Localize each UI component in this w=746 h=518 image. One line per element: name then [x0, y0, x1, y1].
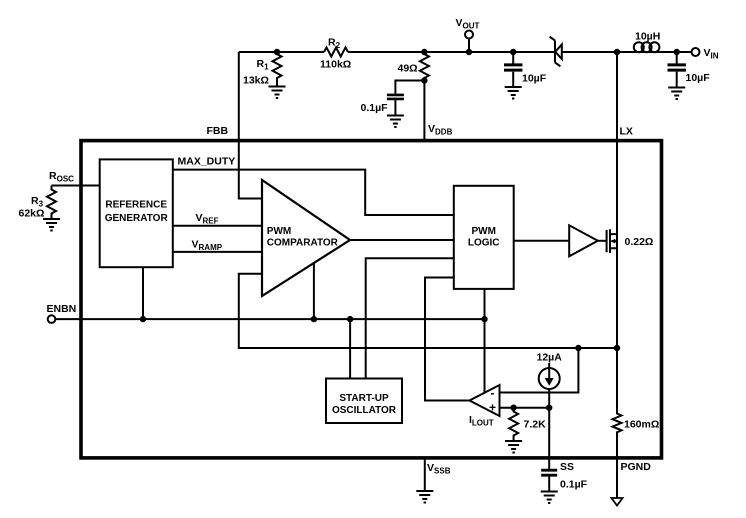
- main IC block border: [81, 141, 662, 458]
- capacitor 10µF (output) stem: [512, 52, 514, 64]
- terminal ENBN: [48, 315, 56, 323]
- junction dot VDDB node: [421, 77, 427, 83]
- resistor 49Ω: [420, 52, 429, 81]
- wire startup right to pwm logic: [366, 258, 454, 378]
- svg-text:+: +: [489, 400, 496, 414]
- junction dot VOUT: [466, 49, 472, 55]
- svg-text:160mΩ: 160mΩ: [624, 419, 659, 431]
- current source I1: [539, 368, 560, 389]
- junction dot LX top: [614, 49, 620, 55]
- wire top rail left segment FBB to R2: [239, 51, 324, 53]
- ground under SS cap: [541, 492, 558, 500]
- junction dot bus comparator: [311, 316, 317, 322]
- svg-text:0.1µF: 0.1µF: [560, 479, 588, 491]
- op-amp PWM comparator: [262, 180, 350, 296]
- capacitor 10µF input lower stem: [676, 72, 678, 88]
- svg-text:7.2K: 7.2K: [524, 419, 547, 431]
- wire ILOUT output to pwm logic: [425, 278, 470, 401]
- svg-text:0.1µF: 0.1µF: [361, 102, 389, 114]
- junction dot bus end: [481, 316, 487, 322]
- start-up oscillator box U3: [326, 379, 402, 424]
- capacitor SS lower stem: [548, 477, 550, 492]
- resistor R3: [47, 186, 56, 220]
- capacitor 0.1µF (VDDB) wire: [395, 81, 424, 94]
- wire driver to gate: [598, 240, 607, 242]
- resistor R1: [273, 52, 282, 87]
- inductor 10µH loops: [634, 42, 644, 52]
- pwm logic box U2: [454, 186, 514, 289]
- svg-text:12µA: 12µA: [537, 352, 563, 364]
- capacitor 10µF lower stem: [512, 72, 514, 87]
- svg-text:FBB: FBB: [207, 125, 229, 137]
- svg-text:0.22Ω: 0.22Ω: [625, 236, 654, 248]
- wire ILOUT plus input: [500, 407, 550, 409]
- svg-text:ENBN: ENBN: [47, 303, 77, 315]
- svg-text:COMPARATOR: COMPARATOR: [267, 238, 339, 249]
- wire ROSC: [52, 185, 100, 187]
- terminal VIN: [692, 48, 700, 56]
- junction dot input cap: [674, 49, 680, 55]
- svg-text:13kΩ: 13kΩ: [243, 75, 269, 87]
- svg-text:MAX_DUTY: MAX_DUTY: [178, 156, 236, 168]
- junction dot sense ILOUT: [575, 345, 581, 351]
- ground under 0.1µF: [387, 116, 404, 124]
- svg-text:OSCILLATOR: OSCILLATOR: [332, 405, 397, 416]
- capacitor 10µF (input) stem: [676, 52, 678, 64]
- resistor R2: [324, 48, 348, 57]
- junction dot sense LX: [614, 345, 620, 351]
- ground under 7.2K: [505, 441, 522, 449]
- capacitor 10µF (input) plates: [668, 65, 686, 70]
- wire top rail diode to LX node: [562, 51, 631, 53]
- ground under R3: [43, 219, 60, 227]
- wire reference generator to bus: [142, 267, 144, 319]
- capacitor 0.1µF stem: [394, 100, 396, 115]
- wire VREF: [173, 225, 262, 227]
- capacitor 0.1µF (VDDB) plates: [387, 95, 404, 99]
- ground under output 10µF: [505, 87, 522, 95]
- svg-text:SS: SS: [560, 461, 574, 473]
- junction dot bus startup: [347, 316, 353, 322]
- wire LX vertical through block: [616, 52, 618, 348]
- transistor Q1 NMOS: [607, 229, 617, 253]
- svg-text:10µF: 10µF: [522, 73, 547, 85]
- wire LX node to inductor / inductor to VIN: [617, 51, 691, 53]
- svg-text:110kΩ: 110kΩ: [320, 59, 351, 71]
- wire VDDB drop: [423, 81, 425, 141]
- wire startup left to bus: [349, 319, 351, 378]
- svg-text:-: -: [491, 386, 495, 400]
- ground under R1: [269, 87, 286, 95]
- wire enable bus: [55, 318, 484, 320]
- resistor 160mΩ: [613, 348, 622, 498]
- wire VRAMP: [173, 251, 262, 253]
- diode D1 schottky cathode bar: [550, 37, 561, 67]
- PGND arrow: [611, 498, 622, 506]
- wire ILOUT minus input to sense line: [500, 348, 579, 393]
- svg-text:START-UP: START-UP: [339, 393, 389, 404]
- wire pwm logic bottom to ILOUT comparator: [484, 289, 486, 393]
- svg-text:LOGIC: LOGIC: [468, 238, 500, 249]
- wire FBB vertical drop into block: [239, 52, 262, 199]
- wire comparator bottom to enable bus: [313, 263, 315, 319]
- junction dot top R1: [274, 49, 280, 55]
- svg-text:62kΩ: 62kΩ: [19, 208, 45, 220]
- wire MAX_DUTY: [173, 170, 454, 215]
- junction dot bus refgen: [140, 316, 146, 322]
- svg-text:10µH: 10µH: [635, 31, 660, 43]
- wire VOUT stem: [468, 39, 470, 53]
- terminal VOUT: [465, 31, 473, 39]
- buffer driver triangle: [569, 225, 598, 256]
- ground under input 10µF: [668, 88, 685, 96]
- svg-text:PWM: PWM: [267, 226, 291, 237]
- svg-text:49Ω: 49Ω: [398, 63, 418, 75]
- svg-text:GENERATOR: GENERATOR: [105, 213, 169, 224]
- junction dot top 49Ω: [421, 49, 427, 55]
- capacitor 10µF (output) plates: [504, 65, 522, 70]
- svg-text:10µF: 10µF: [686, 72, 711, 84]
- wire comparator lower input sense: [239, 274, 617, 348]
- ground under VSSB: [416, 491, 433, 499]
- junction dot 7.2K top: [510, 405, 516, 411]
- wire pwm logic output to driver: [514, 240, 570, 242]
- svg-text:PWM: PWM: [471, 226, 495, 237]
- wire current source to SS node: [548, 389, 550, 408]
- wire comparator output: [350, 239, 454, 241]
- capacitor 0.1µF (SS) plates: [541, 470, 557, 475]
- wire SS pin: [548, 408, 550, 469]
- resistor 7.2K: [509, 408, 518, 441]
- reference generator box U1: [100, 159, 173, 267]
- svg-text:LX: LX: [620, 126, 633, 138]
- diode D1 triangle: [555, 44, 562, 59]
- svg-text:REFERENCE: REFERENCE: [105, 199, 167, 210]
- op-amp ILOUT comparator: [470, 385, 500, 416]
- junction dot output cap: [510, 49, 516, 55]
- wire top rail R2 to diode cathode: [348, 51, 555, 53]
- wire VSSB stub: [424, 458, 426, 491]
- junction dot SS node: [546, 405, 552, 411]
- svg-text:PGND: PGND: [621, 461, 652, 473]
